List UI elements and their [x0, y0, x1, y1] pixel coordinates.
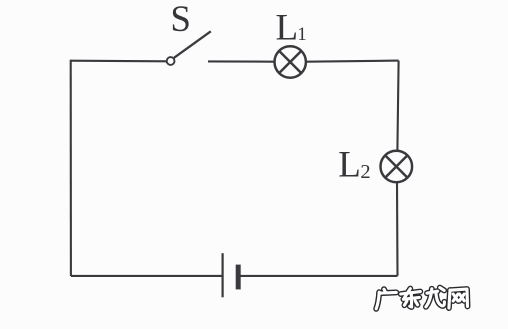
- watermark char 网 (white face): [449, 289, 468, 308]
- wire: right side lower (L2 to bottom-right corner): [396, 182, 399, 276]
- watermark 广东龙网: [376, 288, 467, 309]
- watermark char 东 (white face): [401, 289, 421, 307]
- svg-text:1: 1: [297, 24, 307, 45]
- battery BT1: positive plate (long thin): [222, 253, 224, 297]
- wire: left vertical side: [70, 60, 72, 276]
- wire: right side upper (corner to L2): [397, 61, 398, 151]
- svg-text:L: L: [276, 7, 299, 48]
- watermark char 龙 (white face): [426, 288, 445, 307]
- watermark char 龙 (outline): [426, 288, 445, 307]
- watermark char 东 (outline): [401, 289, 421, 307]
- lamp L2: circle: [381, 151, 413, 183]
- battery BT1: negative plate (short thick): [236, 265, 241, 290]
- svg-text:2: 2: [360, 161, 370, 183]
- svg-text:S: S: [170, 0, 191, 40]
- watermark char 广 (white face): [376, 289, 396, 309]
- wire: top-left horizontal to switch: [71, 60, 167, 63]
- svg-text:L: L: [338, 144, 361, 185]
- watermark char 广 (outline): [376, 289, 396, 309]
- lamp L2: cross: [385, 155, 407, 177]
- wire: switch to lamp L1: [208, 60, 275, 62]
- wire: bottom-left horizontal (corner to battery): [71, 275, 222, 277]
- wire: lamp L1 to top-right corner: [306, 61, 399, 62]
- lamp L1: circle: [275, 46, 306, 77]
- switch S: blade: [174, 31, 211, 58]
- lamp L1: cross: [279, 51, 301, 73]
- watermark char 网 (outline): [449, 289, 468, 308]
- switch S: pivot circle: [167, 57, 175, 65]
- wire: bottom-right horizontal (battery to corner): [241, 275, 398, 277]
